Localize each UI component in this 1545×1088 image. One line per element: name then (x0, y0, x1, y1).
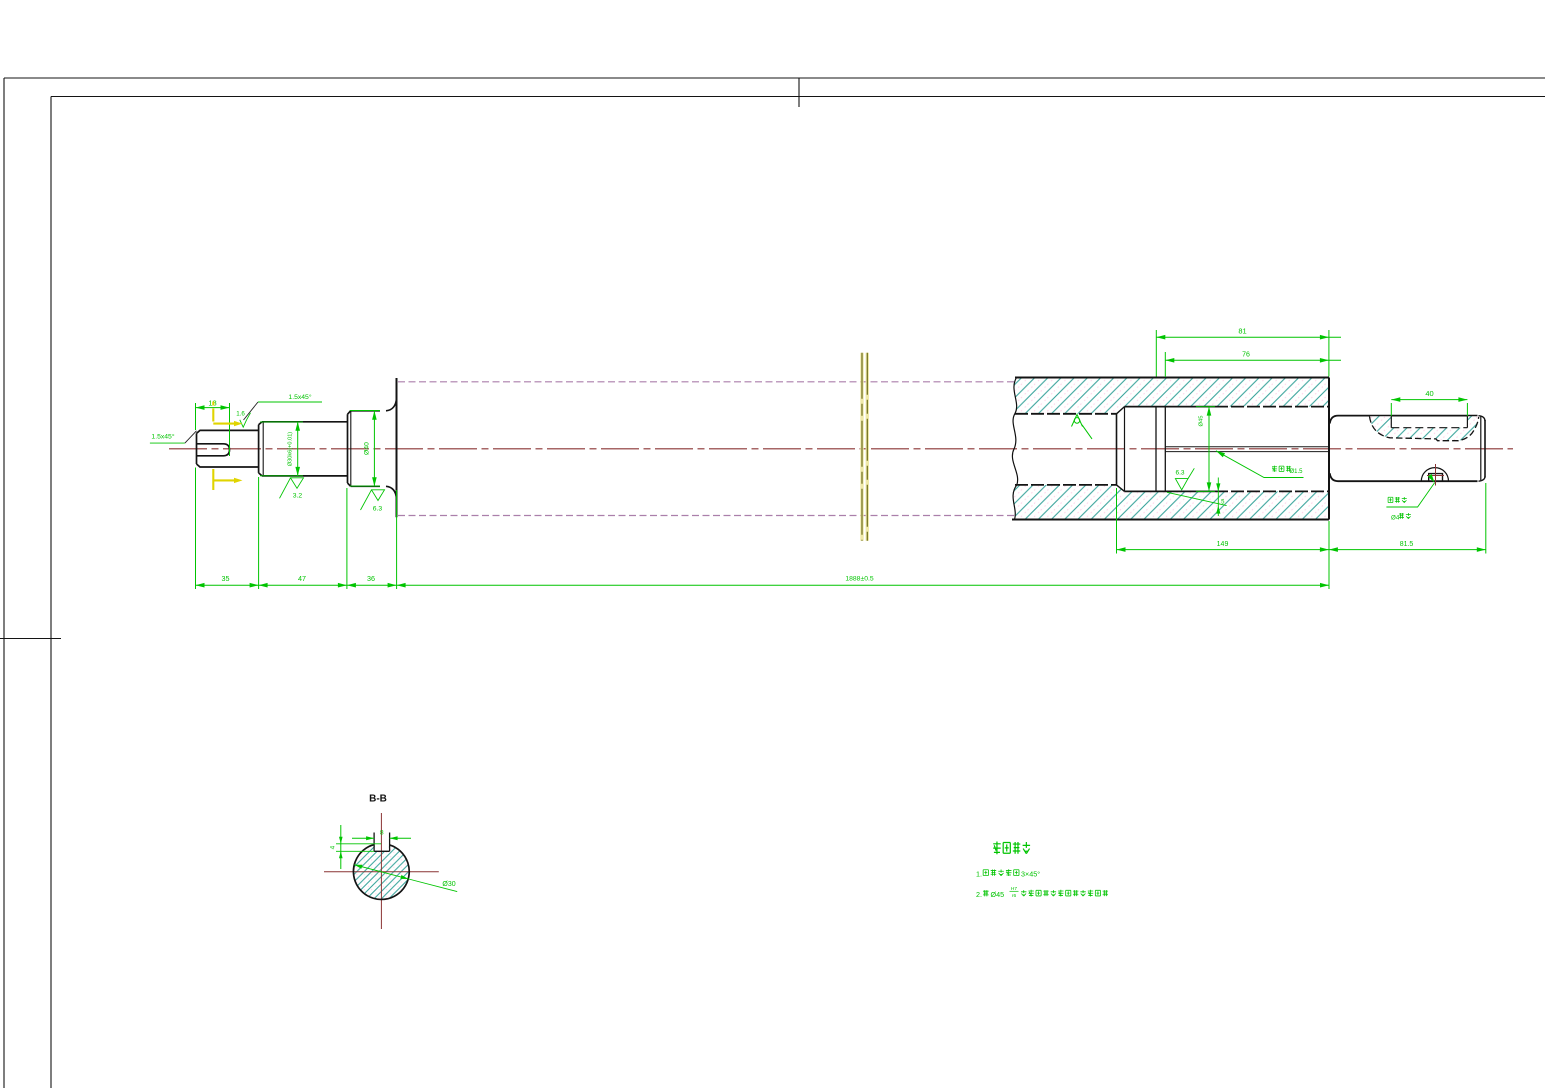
roughness symbol on bore (1072, 415, 1083, 427)
svg-text:B-B: B-B (369, 794, 387, 805)
dim 18 slot length (195, 403, 197, 430)
sheet inner frame (51, 96, 1545, 98)
head chamfer bottom (1117, 485, 1125, 492)
head/fit bottom edge (1125, 490, 1216, 492)
svg-text:1.6: 1.6 (236, 411, 245, 418)
svg-text:81: 81 (1238, 327, 1246, 336)
break line left (860, 353, 863, 541)
milled flat inner rectangle (1390, 416, 1392, 428)
border centering tick left (0, 638, 61, 640)
B-B keyway slot (373, 833, 375, 852)
svg-text:2.: 2. (976, 890, 982, 899)
chain extension lines (195, 468, 197, 590)
B-B keyway depth dim 4 (336, 843, 381, 845)
svg-text:47: 47 (298, 574, 306, 583)
chain dim line 35 (196, 584, 259, 586)
svg-text:149: 149 (1217, 541, 1229, 548)
drum right end face (1328, 378, 1330, 520)
svg-text:r6: r6 (1012, 893, 1017, 899)
shaft head face in bore (1116, 414, 1118, 485)
dim 81 (1155, 330, 1157, 377)
journal bottom edge with fillet (1330, 473, 1478, 481)
head chamfer top (1117, 407, 1125, 414)
pin hole red crosshair (1435, 464, 1437, 486)
svg-text:Ø1.5: Ø1.5 (1289, 469, 1303, 475)
svg-text:Ø40: Ø40 (364, 442, 371, 455)
section B cutting mark upper (212, 402, 214, 406)
main centerline (169, 448, 1513, 450)
section B cutting mark lower (212, 469, 214, 490)
B-B crosshair (324, 871, 439, 873)
roughness 6.3 under collar (372, 490, 385, 501)
leader to step chamfer (244, 402, 259, 420)
dim 76 (1164, 352, 1166, 377)
dim dia40 collar (350, 410, 380, 412)
drum shell phantom top (398, 381, 1014, 383)
chain dim 36 (347, 584, 397, 586)
drum bore bottom line (1015, 484, 1117, 486)
svg-text:40: 40 (1425, 389, 1433, 398)
step face to dia30 section (259, 422, 262, 476)
relief groove verticals (1155, 407, 1157, 492)
pin hole leader and label (1428, 474, 1435, 483)
dim dia45 head (1196, 406, 1215, 408)
head/fit top edge (1125, 406, 1216, 408)
svg-text:3.2: 3.2 (293, 493, 303, 500)
svg-text:1.5x45°: 1.5x45° (288, 393, 311, 401)
fillet top into drum face (386, 398, 397, 411)
svg-text:1888±0.5: 1888±0.5 (845, 576, 874, 583)
drum section hatch top band (1014, 378, 1329, 414)
tech requirements title (993, 842, 1000, 855)
border centering tick top (798, 78, 800, 107)
leader to left chamfer (185, 431, 197, 443)
svg-text:Ø4: Ø4 (1391, 515, 1400, 522)
wavy break edge of drum section (1012, 378, 1017, 520)
journal end chamfer line (1480, 416, 1482, 480)
pin hole dome arc (1421, 468, 1448, 482)
svg-text:8: 8 (380, 830, 384, 837)
B-B keyway width dim 8 (352, 837, 374, 839)
pin hole (1429, 474, 1443, 482)
vent hole leader and label (1216, 451, 1225, 457)
collar edges (351, 410, 380, 412)
sheet outer border (4, 77, 1545, 79)
journal end face (1484, 420, 1486, 478)
svg-text:Ø45: Ø45 (991, 890, 1005, 899)
drum OD top (section) (1015, 377, 1329, 379)
dim 149 (1116, 488, 1118, 554)
svg-text:Ø30k6(+0.01): Ø30k6(+0.01) (288, 432, 294, 466)
fillet bottom into drum face (386, 486, 397, 499)
svg-text:36: 36 (367, 574, 375, 583)
dim dia30k6 (260, 421, 303, 423)
svg-text:Ø30: Ø30 (442, 881, 455, 888)
break line right (866, 353, 869, 541)
svg-text:1.5x45°: 1.5x45° (151, 433, 174, 441)
vent hole walls (1165, 446, 1329, 448)
B-B diameter dim dia30 (354, 865, 457, 892)
drum shell phantom bottom (398, 515, 1014, 517)
B-B circle outline (gap at keyway) (353, 845, 409, 900)
chain dim 47 (259, 584, 347, 586)
drum bore top line (1015, 413, 1117, 415)
svg-text:6.3: 6.3 (373, 506, 383, 513)
head chamfer edge vertical (1124, 407, 1126, 492)
milled flat hatch (1370, 416, 1479, 441)
collar face (348, 411, 351, 487)
B-B hatched circle (354, 844, 410, 900)
journal top edge with fillet (1330, 416, 1478, 424)
svg-text:3×45°: 3×45° (1021, 870, 1040, 879)
shaft slotted end section (197, 430, 259, 467)
svg-text:4: 4 (330, 845, 337, 849)
roughness 3.2 under dia30 (291, 478, 304, 489)
overall dim 1888 (397, 584, 1329, 586)
svg-text:81.5: 81.5 (1400, 541, 1414, 548)
drum OD bottom (section) (1012, 519, 1329, 521)
svg-text:Ø45: Ø45 (1199, 416, 1205, 427)
journal end corner arcs (1479, 416, 1486, 421)
dim 40 flat (1390, 403, 1392, 416)
svg-text:6.3: 6.3 (1175, 470, 1184, 477)
drum section hatch bottom band (1013, 485, 1329, 520)
svg-text:76: 76 (1242, 352, 1250, 359)
milled flat outer boundary (1370, 416, 1479, 440)
dia30 section edges (262, 421, 348, 423)
roughness 6.3 in bore with depth dim 5 (1167, 492, 1227, 505)
dim 81.5 (1485, 483, 1487, 554)
svg-text:1.: 1. (976, 870, 982, 879)
svg-text:35: 35 (222, 574, 230, 583)
slot (fork) (197, 444, 230, 456)
drum left face (396, 378, 398, 517)
